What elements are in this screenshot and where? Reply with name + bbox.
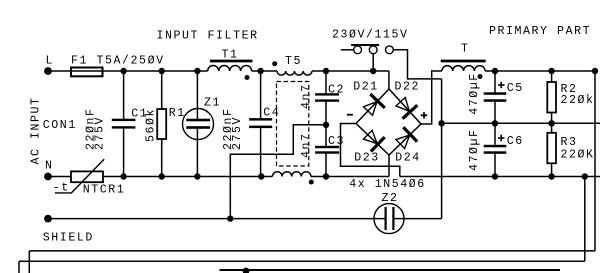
junction dot shield rail [227,215,233,221]
phase dot T5 bottom [309,180,314,185]
Z2 electrodes [385,207,387,230]
capacitor C3 plates [315,146,339,148]
wire DC minus bus [400,176,600,178]
svg-text:N: N [45,159,54,172]
wire frame line B [19,260,585,262]
wire C1 top lead [123,71,125,120]
svg-text:R3: R3 [561,136,578,149]
wire DC plus down right edge [594,71,596,251]
svg-text:22Øk: 22Øk [561,94,595,107]
svg-text:56Øk: 56Øk [145,108,158,142]
wire C6 top lead [494,123,496,145]
svg-text:D22: D22 [395,81,421,94]
T core bar [441,60,486,63]
phase dot T [478,74,483,79]
junction dots top rail [120,68,126,74]
surge arrester Z2 [374,204,404,234]
diode D23 [364,130,378,143]
wire frame line B right leg [584,177,586,262]
choke T5 top coil [277,71,312,75]
wire filter midpoint to shield [230,125,326,219]
svg-text:NTCR1: NTCR1 [83,184,126,197]
switch bar [351,44,379,46]
wire R3 top stub [551,123,553,133]
wire bridge top corner drop [388,71,390,90]
wire C6 bottom lead [494,154,496,177]
wire R2 bottom stub [551,113,553,124]
svg-text:AC INPUT: AC INPUT [29,96,42,164]
diode D22 [396,98,409,112]
wire C4 bottom lead [260,128,262,177]
choke T1 coil [208,66,252,72]
wire top rail L segment [48,70,208,72]
terminal L [44,67,52,75]
wire R3 bottom stub [551,163,553,176]
svg-text:F1 T5A/25ØV: F1 T5A/25ØV [71,55,165,68]
resistor R2 [547,82,556,113]
wire Z1 top lead [196,71,198,120]
wire bridge bottom corner riser [388,155,390,177]
wire R2 top stub [551,71,553,82]
svg-text:C6: C6 [507,135,524,148]
wire Z1 bottom lead [196,127,198,177]
fuse F1 [71,68,103,77]
svg-text:C4: C4 [263,107,280,120]
wire mid rail [442,122,600,124]
svg-text:L: L [46,55,55,68]
svg-text:C5: C5 [507,82,524,95]
wire C2 top lead [325,71,327,94]
wire shield rail [48,218,385,220]
svg-text:C3: C3 [328,135,345,148]
junction dot filter midpoint [323,122,329,128]
wire R1 bottom lead [161,139,163,177]
wire C5 bottom lead [494,102,496,124]
svg-text:47ØµF: 47ØµF [468,128,481,171]
wire switch left stub [341,49,354,51]
capacitor C4 plates [249,118,272,121]
wire C2-C3 middle lead [325,102,327,147]
svg-text:47ØµF: 47ØµF [468,72,481,115]
wire N rail right [311,176,389,178]
svg-text:INPUT FILTER: INPUT FILTER [157,30,259,43]
phase dot T1 [245,75,250,80]
T5 coupling dashed box [277,82,309,167]
choke T5 bottom coil [272,172,310,177]
svg-text:D24: D24 [395,151,421,164]
surge arrester Z1 [183,109,214,140]
terminal SHIELD [44,215,52,223]
svg-text:Z2: Z2 [382,192,399,205]
svg-text:SHIELD: SHIELD [43,232,94,245]
capacitor C1 plates [112,119,136,121]
svg-text:4x 1N54Ø6: 4x 1N54Ø6 [349,178,426,191]
svg-text:T5: T5 [285,55,302,68]
wire switch center to rail [372,54,374,71]
wire bottom edge net [220,269,561,271]
switch 230V/115V pads [354,46,362,54]
svg-text:PRIMARY PART: PRIMARY PART [489,25,591,38]
capacitor C5 plates [484,92,507,95]
plus sign C5 [498,84,505,86]
wire Z2 right lead [394,218,442,220]
junction dot bottom net [243,268,250,273]
wire top rail T5-bridge segment [312,70,389,72]
bridge minus sign [347,114,353,116]
junction dots mid rail [438,120,444,126]
wire R1 top lead [161,71,163,110]
wire frame line B left leg [18,261,20,273]
T1 core bar [210,60,253,63]
svg-text:D23: D23 [354,151,380,164]
svg-text:T1: T1 [222,49,239,62]
bridge plus sign [421,114,427,116]
svg-text:-t: -t [53,182,70,195]
wire N rail left [48,176,71,178]
svg-text:CON1: CON1 [43,119,77,132]
wire DC plus rail [485,70,595,72]
svg-text:D21: D21 [353,81,379,94]
svg-text:22ØK: 22ØK [561,148,595,161]
wire C3 bottom lead [325,154,327,177]
capacitor C6 plates [484,145,507,148]
plus sign C6 [498,137,505,139]
capacitor C2 plates [315,93,339,95]
wire C5 top lead [494,71,496,93]
svg-text:275V: 275V [231,116,244,150]
wire bridge plus path [421,71,442,124]
svg-text:T: T [461,43,470,56]
wire switch to midpoint vertical [441,79,443,219]
svg-text:23ØV/115V: 23ØV/115V [332,29,409,42]
junction dots bottom rail [120,173,126,179]
resistor R3 [547,133,556,164]
diode D21 [364,102,378,116]
wire C4 top lead [260,71,262,119]
phase dot T5 top [272,61,277,66]
Z1 electrodes [186,119,210,122]
resistor R1 [157,109,166,139]
svg-text:Z1: Z1 [204,97,221,110]
wire C1 bottom lead [123,127,125,177]
junction dots DC plus rail [492,68,498,74]
wire N rail middle [103,176,273,178]
wire switch right lead [393,50,441,79]
wire frame line A left leg [28,251,30,273]
svg-text:4n7: 4n7 [300,83,313,109]
svg-text:275V: 275V [94,116,107,150]
svg-text:C2: C2 [328,84,345,97]
thermistor NTCR1 [71,171,103,182]
wire frame line A [29,250,595,252]
svg-text:R1: R1 [169,107,186,120]
wire bridge minus path [341,124,400,177]
terminal N [44,173,52,181]
svg-text:4n7: 4n7 [300,132,313,158]
diode D24 [396,135,410,149]
bridge diamond [356,89,421,155]
choke T coil [442,66,485,71]
wire top rail T1-T5 segment [252,70,277,72]
